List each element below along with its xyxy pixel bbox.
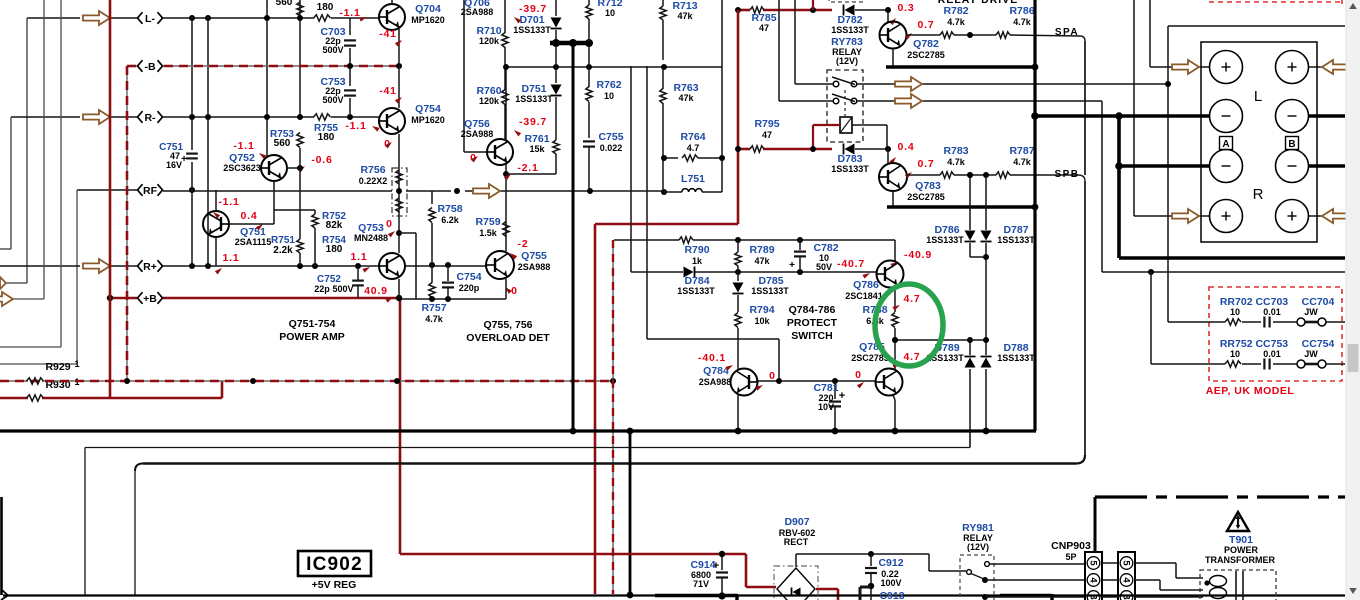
- transformer primary: [1210, 576, 1227, 599]
- voltage -39.7 top: [513, 3, 547, 24]
- svg-text:SWITCH: SWITCH: [791, 330, 832, 342]
- transistor Q782: [880, 22, 907, 49]
- wire maroon bridge out: [816, 589, 838, 600]
- diode D751: [551, 45, 562, 135]
- label R713: [672, 0, 697, 21]
- wire Q751 stubs: [215, 190, 217, 266]
- wire x1085 vertical: [1084, 41, 1086, 455]
- junction y240: [735, 237, 803, 243]
- label RELAY DRIVE partial: [938, 0, 1018, 6]
- svg-text:-1.1: -1.1: [218, 196, 239, 208]
- svg-text:R762: R762: [596, 79, 621, 91]
- svg-text:+5V REG: +5V REG: [312, 579, 357, 591]
- label R758: [437, 203, 462, 225]
- label R790: [684, 244, 709, 266]
- svg-text:MP1620: MP1620: [411, 115, 445, 125]
- svg-text:10: 10: [1230, 349, 1240, 359]
- node +B: [138, 292, 163, 305]
- wire +B rail maroon: [110, 297, 400, 300]
- node R+: [138, 260, 163, 273]
- svg-text:2.2k: 2.2k: [273, 245, 293, 256]
- junction x895 y340: [892, 337, 898, 343]
- voltage -0.6: [298, 154, 333, 173]
- wire D782 to Q782: [855, 7, 891, 23]
- svg-text:120k: 120k: [479, 96, 500, 106]
- thick y166: [1115, 162, 1345, 170]
- label R929: [45, 359, 79, 373]
- svg-text:+: +: [789, 260, 795, 271]
- svg-text:1SS133T: 1SS133T: [515, 94, 553, 104]
- resistor R795: [750, 146, 764, 152]
- wire SPA fillet: [1080, 36, 1085, 41]
- svg-text:0.7: 0.7: [918, 158, 935, 170]
- voltage 0 Q755: [503, 285, 517, 297]
- svg-text:120k: 120k: [479, 36, 500, 46]
- svg-text:POWER AMP: POWER AMP: [279, 331, 345, 343]
- svg-text:+B: +B: [143, 293, 157, 305]
- svg-text:4.7k: 4.7k: [425, 314, 444, 324]
- thick y116: [1031, 112, 1345, 120]
- svg-text:2SA1115: 2SA1115: [235, 237, 272, 247]
- transistor Q784: [731, 369, 758, 396]
- node R-: [138, 111, 163, 124]
- wire Q756 collector: [505, 67, 507, 140]
- wire contact1 left: [795, 0, 833, 84]
- wire y464 return: [143, 462, 1076, 465]
- bridge diode: [792, 588, 801, 597]
- label R753: [270, 129, 294, 149]
- svg-text:-2: -2: [518, 238, 529, 250]
- capacitor C751: [159, 142, 198, 170]
- resistor R785: [750, 7, 764, 13]
- wire vert x192 C751 col: [191, 18, 193, 266]
- wire y272: [1102, 269, 1345, 275]
- capacitor C703: [344, 18, 356, 66]
- wire coil right: [852, 125, 887, 149]
- wire Q704 emitter col: [398, 29, 400, 108]
- wire row2: [1151, 363, 1345, 365]
- arrow into R+: [1172, 209, 1199, 223]
- label R756: [359, 164, 388, 186]
- diode D788: [981, 357, 992, 368]
- node dots L- rail: [189, 15, 303, 21]
- svg-text:3: 3: [1088, 594, 1099, 599]
- label R783: [943, 145, 968, 167]
- resistor R760: [502, 47, 508, 140]
- capacitor C752: [352, 266, 364, 298]
- svg-text:4.7k: 4.7k: [1013, 17, 1032, 27]
- svg-text:2SA988: 2SA988: [699, 377, 732, 387]
- voltage 1.1 Q753: [351, 251, 372, 273]
- resistor R755 180: [314, 114, 331, 120]
- wire x1150: [1150, 0, 1172, 67]
- dashed red box top right: [1209, 0, 1342, 4]
- svg-text:50V: 50V: [816, 262, 832, 272]
- label R762: [596, 79, 621, 101]
- svg-text:2SC1841: 2SC1841: [845, 291, 883, 301]
- wire Q755 emitter: [505, 279, 507, 299]
- wire thick x573: [572, 43, 575, 431]
- relay coil: [840, 117, 852, 133]
- label C752: [314, 274, 353, 294]
- label Q782: [907, 38, 945, 60]
- scrollbar track: [1346, 0, 1360, 600]
- svg-text:0.01: 0.01: [1263, 307, 1281, 317]
- label D787: [997, 224, 1035, 245]
- diode D786: [965, 231, 976, 242]
- junction y272: [735, 269, 803, 275]
- wire Q753 base jog: [399, 233, 416, 299]
- capacitor C781: [829, 381, 845, 431]
- arrow into L+: [1172, 60, 1199, 74]
- junction x399: [396, 188, 402, 301]
- diode D785: [733, 272, 744, 307]
- label R760: [476, 85, 501, 106]
- dashdot power line y497: [1095, 495, 1345, 498]
- svg-text:-B: -B: [144, 61, 155, 73]
- signal arrow mid rail: [473, 184, 500, 198]
- wire dashed rail y381: [0, 380, 613, 382]
- wire maroon y224: [595, 223, 738, 226]
- bridge box: [774, 566, 818, 600]
- label Q751: [235, 226, 272, 247]
- svg-text:0: 0: [386, 218, 392, 230]
- label Q783: [907, 180, 945, 202]
- wire conn right 1: [1135, 563, 1203, 578]
- svg-text:Q704: Q704: [415, 3, 441, 15]
- voltage 0.7 Q782: [905, 19, 935, 40]
- resistor R752: [274, 210, 318, 266]
- label D783: [831, 153, 869, 174]
- wire relay out3: [985, 596, 1085, 598]
- label R930: [45, 377, 79, 391]
- resistor R930: [27, 395, 44, 401]
- wire maroon x595: [594, 224, 597, 594]
- label R757: [421, 302, 446, 324]
- svg-text:22p: 22p: [314, 284, 330, 294]
- wire maroon R930 line: [0, 381, 222, 398]
- label R786: [1009, 5, 1034, 27]
- label R795: [754, 118, 779, 140]
- label D785: [751, 275, 789, 296]
- wire x1085 bottom fillet: [1076, 455, 1085, 464]
- voltage -41 upper: [379, 28, 403, 47]
- svg-text:(12V): (12V): [836, 56, 858, 66]
- label R763: [673, 82, 698, 103]
- label T901: [1205, 534, 1275, 565]
- junction x1035 y67: [1032, 64, 1039, 71]
- resistor R756 dual: [396, 170, 402, 212]
- svg-text:0.7: 0.7: [918, 19, 935, 31]
- capacitor CC753: [1264, 359, 1269, 370]
- label RY783: [831, 36, 863, 66]
- svg-text:R: R: [1253, 186, 1264, 203]
- terminal L+ B: [1276, 51, 1309, 84]
- svg-text:R929: R929: [45, 361, 70, 373]
- label R751: [271, 235, 295, 256]
- svg-text:Q755, 756: Q755, 756: [483, 319, 532, 331]
- svg-text:5: 5: [1088, 560, 1099, 566]
- terminal R- A: [1210, 150, 1243, 183]
- resistor RR752: [1216, 361, 1241, 367]
- label RR752 row: [1220, 338, 1335, 350]
- resistor R713: [660, 0, 666, 60]
- wire speaker + R: [1199, 215, 1322, 217]
- label RR752 values: [1230, 349, 1318, 359]
- junction x970 y175: [967, 172, 989, 178]
- relay RY981 box: [960, 555, 994, 600]
- wire R790 line y240: [614, 240, 895, 261]
- svg-text:-1.1: -1.1: [345, 120, 366, 132]
- svg-text:-1.1: -1.1: [233, 140, 254, 152]
- svg-text:47: 47: [759, 23, 769, 33]
- svg-text:JW: JW: [1304, 349, 1318, 359]
- svg-text:5P: 5P: [1065, 552, 1076, 562]
- relay RY981 contact: [967, 562, 990, 600]
- thick x1035: [1033, 0, 1036, 431]
- wire x970 col: [969, 175, 971, 447]
- resistor R758: [429, 191, 435, 265]
- svg-text:A: A: [1222, 139, 1229, 150]
- svg-text:(12V): (12V): [967, 542, 989, 552]
- wire dashed maroon x613: [612, 240, 614, 594]
- wire D783 to Q783: [855, 146, 891, 163]
- voltage -2: [509, 238, 529, 260]
- svg-text:500V: 500V: [332, 284, 353, 294]
- svg-text:-41: -41: [379, 28, 397, 40]
- svg-text:71V: 71V: [693, 579, 709, 589]
- svg-text:4: 4: [1088, 577, 1099, 583]
- svg-text:0.022: 0.022: [600, 143, 623, 153]
- transformer box: [1200, 570, 1276, 600]
- wire vert x44: [13, 0, 44, 299]
- bus thick y431: [0, 429, 1036, 432]
- label R794: [749, 304, 774, 326]
- svg-text:JW: JW: [1304, 307, 1318, 317]
- wire x135: [134, 471, 136, 595]
- terminal R+ A: [1210, 200, 1243, 233]
- box R756 dashdot: [392, 168, 407, 216]
- label D784: [677, 275, 715, 296]
- svg-text:500V: 500V: [322, 45, 343, 55]
- diode D783: [844, 144, 855, 155]
- voltage 0 Q756: [470, 152, 479, 164]
- label Q786: [845, 279, 883, 301]
- svg-text:3: 3: [1121, 594, 1132, 599]
- svg-text:4: 4: [1121, 577, 1132, 583]
- wire maroon x400: [399, 298, 402, 554]
- label Q753: [354, 222, 388, 243]
- fillet left x135: [135, 464, 143, 472]
- label L: [1254, 88, 1262, 105]
- warning triangle T901: [1227, 512, 1249, 531]
- voltage 0 Q754: [384, 138, 393, 150]
- wire contact1 right: [857, 83, 1168, 85]
- label 180: [317, 2, 334, 13]
- wire +B black extension: [400, 298, 506, 300]
- label R761: [524, 133, 549, 154]
- wire Q752 collector right: [286, 165, 303, 171]
- capacitor C755: [583, 141, 595, 191]
- capacitor C912: [865, 554, 877, 600]
- svg-text:R756: R756: [360, 164, 385, 176]
- label R754: [322, 235, 346, 255]
- svg-text:0.4: 0.4: [898, 141, 915, 153]
- wire conn right 2: [1135, 580, 1203, 590]
- junction dots y381: [124, 378, 616, 384]
- wire maroon x738: [737, 10, 740, 224]
- svg-text:16V: 16V: [166, 160, 182, 170]
- svg-text:0: 0: [855, 369, 861, 381]
- svg-text:0.3: 0.3: [898, 2, 915, 14]
- terminal L- B: [1276, 100, 1309, 133]
- svg-text:4.7k: 4.7k: [947, 157, 966, 167]
- wire D784 line y272: [631, 271, 877, 273]
- wire -B vert dashed x127: [126, 66, 128, 381]
- label C703: [320, 26, 345, 55]
- wire Q783 emitter rail: [907, 174, 1078, 176]
- voltage -40.9: [890, 249, 932, 268]
- resistor R759: [503, 222, 509, 237]
- svg-text:1k: 1k: [692, 256, 703, 266]
- svg-text:POWER: POWER: [1224, 545, 1259, 555]
- wire Q782 collector: [892, 48, 894, 66]
- svg-text:1: 1: [74, 359, 79, 369]
- thick y258: [1119, 256, 1345, 260]
- label R755: [314, 123, 338, 143]
- wire coil left maroon: [813, 125, 840, 149]
- resistor R764: [661, 155, 725, 161]
- svg-text:R795: R795: [754, 118, 779, 130]
- resistor 560: [297, 2, 303, 16]
- diode D789: [965, 357, 976, 368]
- svg-text:2SA988: 2SA988: [461, 7, 494, 17]
- relay box RY783: [827, 70, 863, 142]
- wire Q751 collector: [229, 223, 274, 225]
- svg-text:10V: 10V: [818, 402, 834, 412]
- svg-text:R758: R758: [437, 203, 462, 215]
- label C782: [813, 242, 838, 272]
- wire x1134: [1134, 0, 1172, 216]
- wire R- rail: [11, 116, 380, 118]
- terminal L- A: [1210, 100, 1243, 133]
- voltage -40.1: [698, 352, 734, 371]
- connector CNP903 block2: [1118, 552, 1135, 600]
- wire contact2 left: [779, 0, 833, 101]
- svg-text:2SC2785: 2SC2785: [907, 50, 945, 60]
- label R712: [597, 0, 622, 18]
- junction maroon y149: [735, 146, 816, 152]
- note Q751-754 POWER AMP: [279, 318, 345, 343]
- bottom bus y595: [3, 594, 1345, 596]
- wire conn left stub: [1102, 563, 1118, 597]
- svg-text:Q782: Q782: [913, 38, 939, 50]
- transistor Q753: [379, 253, 405, 279]
- label 560: [276, 0, 293, 8]
- voltage 0 Q785: [855, 369, 865, 389]
- label R752: [322, 211, 346, 231]
- label D786: [926, 224, 964, 245]
- terminal L+ A: [1210, 51, 1243, 84]
- voltage 0 Q784: [755, 370, 775, 391]
- transistor Q755: [486, 251, 514, 279]
- svg-text:47: 47: [762, 130, 772, 140]
- wire vert x267 Q752: [266, 117, 268, 156]
- node RF: [138, 184, 163, 197]
- bus bar y43: [550, 39, 593, 47]
- transistor Q704: [379, 4, 405, 30]
- svg-text:560: 560: [276, 0, 293, 8]
- svg-text:L: L: [1254, 88, 1262, 105]
- svg-text:82k: 82k: [326, 220, 343, 231]
- svg-text:-2.1: -2.1: [517, 162, 538, 174]
- svg-text:1SS133T: 1SS133T: [997, 235, 1035, 245]
- svg-text:C913: C913: [879, 590, 904, 600]
- svg-text:R789: R789: [749, 244, 774, 256]
- svg-text:560: 560: [274, 138, 291, 149]
- label CNP903: [1051, 540, 1091, 562]
- relay contact 2: [832, 90, 857, 116]
- svg-text:+: +: [839, 390, 845, 402]
- resistor R789: [735, 240, 741, 272]
- svg-text:-1.1: -1.1: [339, 7, 360, 19]
- wire bridge top: [796, 551, 929, 567]
- svg-text:47k: 47k: [677, 11, 693, 21]
- wire Q756 emitter: [503, 164, 556, 251]
- voltage 40.9: [364, 285, 394, 303]
- svg-text:0.01: 0.01: [1263, 349, 1281, 359]
- svg-text:1SS133T: 1SS133T: [751, 286, 789, 296]
- wire vert x267 top: [266, 0, 268, 117]
- wire vert x208: [207, 18, 209, 266]
- svg-text:-40.7: -40.7: [837, 258, 865, 270]
- signal arrow left y299: [0, 292, 13, 306]
- label R787: [1009, 145, 1034, 167]
- junction y381 dots: [776, 378, 838, 384]
- svg-text:Q754: Q754: [415, 103, 441, 115]
- voltage 0.4 D783: [889, 141, 914, 164]
- box A: [1220, 137, 1233, 151]
- svg-text:0.22X2: 0.22X2: [359, 176, 388, 186]
- jumper CC754: [1297, 360, 1326, 368]
- svg-text:2SC2785: 2SC2785: [907, 192, 945, 202]
- svg-text:1.5k: 1.5k: [479, 228, 498, 238]
- wire x631: [630, 66, 632, 272]
- wire x1151: [1150, 272, 1152, 364]
- svg-text:10: 10: [1230, 307, 1240, 317]
- thick x1095: [1094, 497, 1097, 552]
- voltage -40.7: [837, 258, 871, 279]
- junction +B x110: [107, 295, 113, 301]
- resistor R762: [586, 45, 592, 138]
- capacitor CC703: [1264, 317, 1269, 328]
- svg-text:-0.6: -0.6: [311, 154, 332, 166]
- label R785: [751, 12, 776, 33]
- junction y431 dots: [570, 428, 990, 435]
- wire Q782 emitter rail: [907, 35, 1080, 36]
- svg-text:Q784: Q784: [703, 365, 729, 377]
- svg-text:L751: L751: [681, 173, 705, 185]
- svg-text:100V: 100V: [880, 578, 901, 588]
- wire Q785 emitter: [893, 395, 895, 431]
- wire Q704 collector top: [391, 0, 393, 5]
- bus thick y67: [886, 65, 1036, 68]
- transformer core: [1236, 571, 1243, 600]
- node dots R+ rail: [189, 262, 451, 269]
- label R764: [680, 131, 705, 153]
- voltage -1.1 Q752: [233, 140, 266, 159]
- wire Q754 emitter col: [398, 134, 400, 253]
